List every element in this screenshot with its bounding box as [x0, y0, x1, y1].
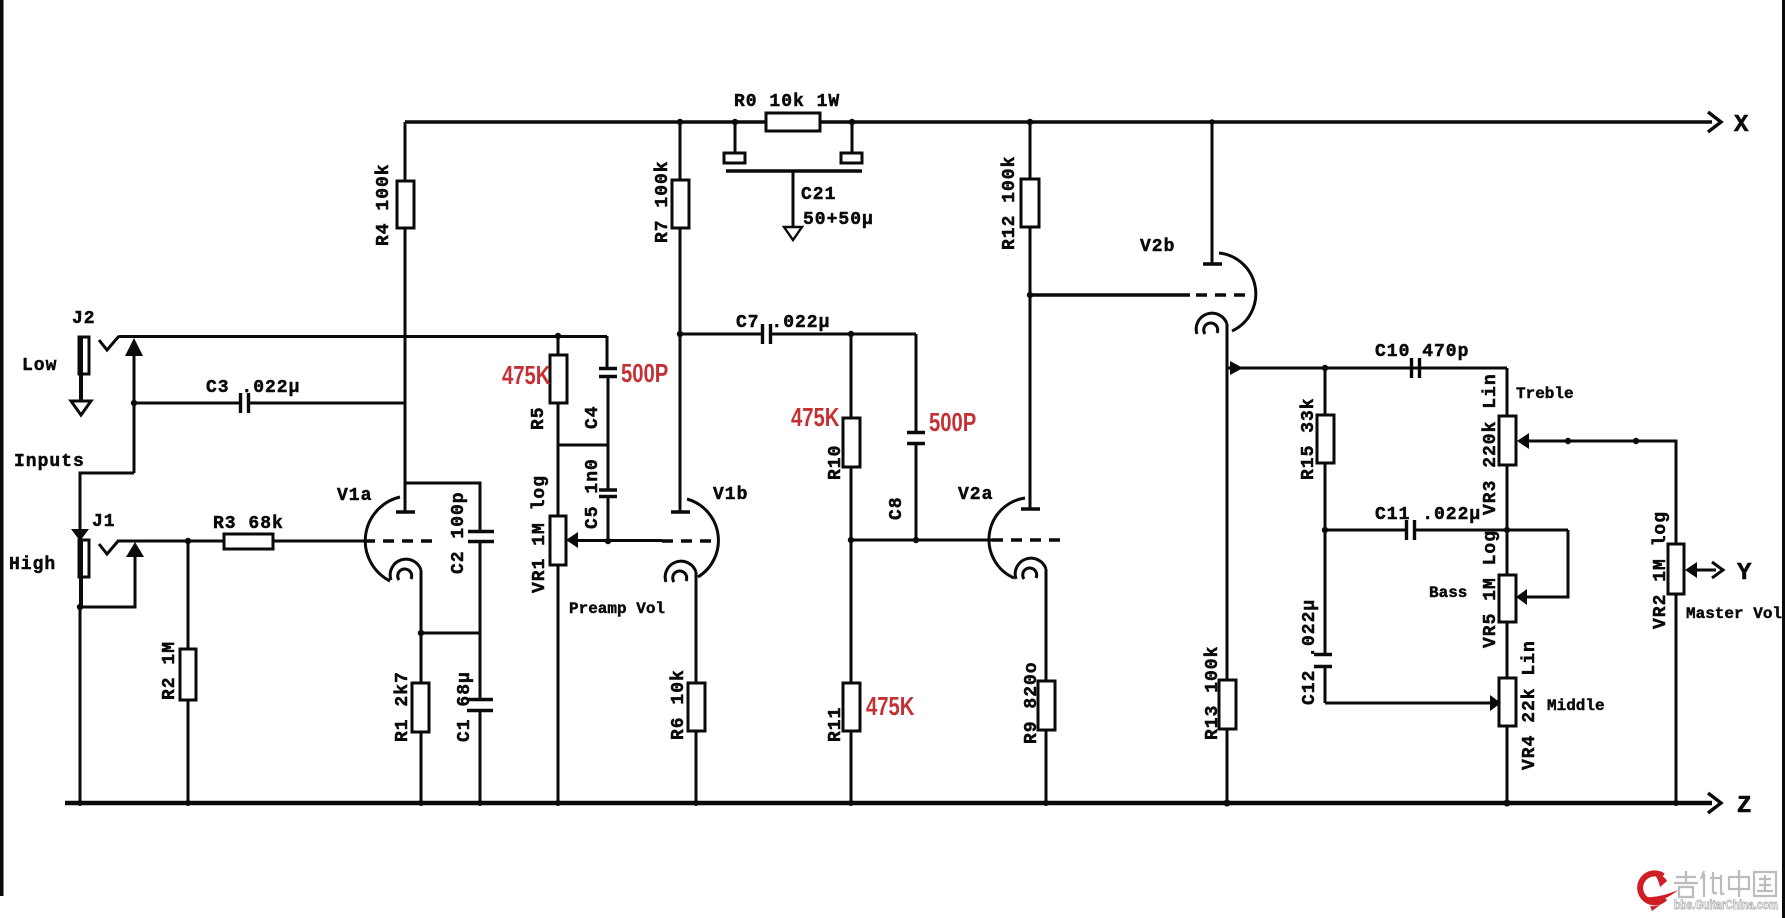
svg-text:X: X [1734, 112, 1749, 139]
svg-text:R11: R11 [826, 707, 846, 742]
tube V1b envelope [687, 499, 718, 577]
svg-text:C10 470p: C10 470p [1375, 342, 1469, 362]
svg-text:500P: 500P [929, 408, 976, 437]
V2a plate bar [1021, 507, 1040, 510]
svg-text:Bass: Bass [1429, 584, 1467, 602]
resistor R10 (475K) [843, 334, 860, 540]
ground rail junction dots [77, 800, 1679, 806]
svg-text:R5: R5 [529, 406, 549, 430]
capacitor C1 68u [467, 700, 493, 804]
VR5 wiper arrow [1516, 589, 1527, 605]
resistor R9 820o [1038, 681, 1055, 803]
resistor R2 1M [180, 541, 196, 803]
J1 feed arrow (down) [71, 529, 89, 541]
wire plate to C2 [405, 483, 480, 531]
wire inputs step [80, 473, 134, 530]
wire V1b cathode [695, 572, 698, 683]
capacitor C8 (500P) [907, 334, 925, 540]
VR4 wiper arrow [1490, 695, 1501, 711]
svg-text:R0 10k 1W: R0 10k 1W [734, 92, 840, 112]
node junction dot R10 bottom [848, 537, 854, 543]
wire: top HT rail X [405, 120, 1712, 123]
V2b plate bar [1203, 262, 1222, 265]
svg-text:VR2 1M log: VR2 1M log [1651, 511, 1671, 629]
wire V2b cathode [1226, 324, 1229, 680]
V1a cathode curl [390, 559, 421, 580]
node junction dot V2b grid tap [1027, 292, 1033, 298]
svg-text:VR5 1M Log: VR5 1M Log [1481, 530, 1501, 648]
wire V2b plate drop [1211, 122, 1214, 264]
VR1 wiper arrow [566, 532, 578, 548]
wire J1 tip to R3 [119, 540, 224, 543]
svg-text:High: High [9, 555, 56, 575]
tube V2a envelope [989, 498, 1025, 578]
svg-text:475K: 475K [791, 403, 840, 432]
jack J2 (Low input) [71, 337, 91, 415]
resistor R0 10k 1W [732, 113, 855, 131]
capacitor C3 [241, 393, 406, 413]
wire C7 left [680, 333, 762, 336]
node junction dot C11 left [1322, 527, 1328, 533]
wire VR3 wiper to VR2 [1528, 441, 1676, 544]
node junction dot C7 tap [677, 331, 683, 337]
potentiometer VR5 1M Log [1499, 575, 1516, 678]
svg-text:475K: 475K [502, 361, 551, 390]
left page border [0, 0, 4, 896]
wire C3 left [134, 402, 240, 405]
svg-text:500P: 500P [621, 359, 668, 388]
svg-text:VR4 22k Lin: VR4 22k Lin [1520, 640, 1540, 770]
svg-text:Middle: Middle [1547, 697, 1605, 715]
svg-text:V1b: V1b [713, 485, 748, 505]
svg-text:C11 .022µ: C11 .022µ [1375, 505, 1481, 525]
svg-text:Low: Low [22, 356, 57, 376]
svg-text:VR3 220k Lin: VR3 220k Lin [1481, 373, 1501, 515]
svg-text:C21: C21 [801, 185, 836, 205]
wire VR1 wiper to V1b grid [577, 539, 662, 542]
svg-text:R13 100k: R13 100k [1203, 646, 1223, 740]
wire V1a cathode [420, 570, 423, 683]
svg-text:C2 100p: C2 100p [449, 491, 469, 574]
capacitor C2 100p [468, 532, 494, 700]
svg-text:Treble: Treble [1516, 385, 1574, 403]
VR3 wiper arrow [1517, 433, 1529, 449]
svg-text:R4 100k: R4 100k [374, 163, 394, 246]
svg-text:C8: C8 [887, 496, 907, 520]
svg-text:V2b: V2b [1140, 237, 1175, 257]
svg-text:R1 2k7: R1 2k7 [393, 671, 413, 742]
svg-text:Y: Y [1737, 560, 1752, 587]
wire J2 arrow to C3 node [133, 354, 136, 473]
resistor R1 2k7 [412, 683, 429, 803]
capacitor C10 470p [1412, 358, 1420, 378]
V1a grid dashes [364, 539, 438, 542]
svg-text:R10: R10 [826, 445, 846, 480]
svg-text:bbs.GuitarChina.com: bbs.GuitarChina.com [1674, 898, 1778, 912]
node junction dot V2b plate [1209, 119, 1215, 125]
wire R5/C4 bottom tie [558, 444, 608, 447]
capacitor C7 .022u [763, 324, 917, 344]
node junction dot C5 bottom [605, 538, 611, 544]
wire V2b grid [1030, 293, 1190, 296]
J2 shorting arrow [125, 338, 143, 356]
potentiometer VR4 22k Lin [1499, 678, 1516, 807]
svg-text:50+50µ: 50+50µ [803, 210, 874, 230]
svg-text:C4: C4 [583, 405, 603, 429]
wire Y output [1696, 569, 1716, 572]
svg-text:C7 .022µ: C7 .022µ [736, 313, 830, 333]
V2b cathode curl [1196, 313, 1227, 334]
tube V2b envelope [1219, 253, 1256, 331]
resistor R13 100k [1219, 680, 1236, 807]
wire cathode to C1 [421, 632, 480, 635]
node Y arrowhead [1712, 562, 1723, 578]
svg-text:V2a: V2a [958, 485, 993, 505]
wire bass wiper loop [1527, 530, 1568, 597]
potentiometer VR3 220k Lin [1499, 416, 1516, 575]
node junction dot [418, 630, 424, 636]
capacitor C12 .022u [1314, 655, 1332, 704]
svg-text:Inputs: Inputs [14, 452, 85, 472]
V2a cathode curl [1015, 558, 1046, 579]
capacitor C5 1n0 [599, 445, 617, 541]
node junction dot R5 top [555, 333, 561, 339]
node junction dot [77, 604, 83, 610]
V2b grid dashes [1196, 293, 1248, 296]
svg-text:475K: 475K [866, 692, 915, 721]
node X arrowhead [1708, 112, 1721, 132]
node junction dot [1633, 438, 1639, 444]
svg-text:R15 33k: R15 33k [1299, 397, 1319, 480]
resistor R7 100k [672, 119, 689, 512]
J2 switch contact check [99, 336, 119, 350]
node junction dot R15 top [1322, 365, 1328, 371]
wire C11 run [1325, 529, 1406, 532]
V2a grid dashes [992, 538, 1062, 541]
node junction dot C11 tie [1504, 527, 1510, 533]
J1 shorting arrow [126, 542, 144, 557]
svg-text:J1: J1 [92, 512, 116, 532]
capacitor C4 (500P) [599, 336, 617, 445]
capacitor C11 .022u [1407, 520, 1569, 540]
J1 switch contact check [99, 540, 119, 554]
svg-text:Master Vol: Master Vol [1686, 605, 1782, 623]
resistor R15 33k [1317, 368, 1334, 654]
wire J2 tip rail [119, 335, 607, 338]
resistor R5 (475K) [550, 336, 567, 516]
resistor R4 100k [397, 122, 414, 512]
watermark chinese characters [1674, 870, 1776, 897]
wire to V2a grid [851, 539, 992, 542]
node junction dot [1565, 438, 1571, 444]
VR2 wiper arrow [1685, 562, 1697, 578]
wire: bottom ground rail Z [65, 801, 1712, 805]
svg-text:R12 100k: R12 100k [1000, 156, 1020, 250]
potentiometer VR2 1M log (Master Vol) [1668, 544, 1684, 803]
node junction dot R2 tap [185, 538, 191, 544]
svg-text:Preamp Vol: Preamp Vol [569, 600, 665, 618]
wire tone stack top right [1506, 368, 1509, 416]
wire J1 sleeve loop [80, 556, 135, 607]
svg-text:R2 1M: R2 1M [160, 641, 180, 700]
resistor R6 10k [688, 683, 705, 803]
svg-text:R6 10k: R6 10k [669, 669, 689, 740]
wire cathode follower out [1227, 367, 1507, 370]
svg-text:C5 1n0: C5 1n0 [583, 458, 603, 529]
V1a plate bar [396, 510, 415, 513]
watermark logo G swirl [1640, 872, 1678, 911]
V1b plate bar [671, 510, 690, 513]
wire middle wiper run [1325, 702, 1490, 705]
svg-text:V1a: V1a [337, 486, 372, 506]
svg-text:Z: Z [1737, 793, 1751, 820]
wire J1 ground drop [79, 607, 82, 803]
svg-text:C12 .022µ: C12 .022µ [1300, 599, 1320, 705]
svg-text:R7 100k: R7 100k [653, 160, 673, 243]
svg-text:R3 68k: R3 68k [213, 514, 284, 534]
node junction dot [131, 400, 137, 406]
V1b grid dashes [662, 539, 711, 542]
jack J1 (High input) [79, 540, 89, 607]
capacitor C21 50+50u [724, 122, 862, 240]
V1b cathode curl [665, 561, 696, 582]
node junction dot R10 top [848, 331, 854, 337]
svg-text:C1 68µ: C1 68µ [455, 671, 475, 742]
wire R3 to V1a grid [273, 540, 364, 543]
V2b output arrow [1230, 361, 1243, 375]
svg-text:C3 .022µ: C3 .022µ [206, 378, 300, 398]
resistor R12 100k [1021, 119, 1039, 509]
svg-text:J2: J2 [72, 309, 96, 329]
right page border [1782, 0, 1785, 918]
svg-text:R9 820o: R9 820o [1022, 661, 1042, 744]
svg-text:VR1 1M log: VR1 1M log [530, 475, 550, 593]
node Z arrowhead [1708, 793, 1721, 813]
resistor R11 (475K) [843, 540, 860, 803]
tube V1a envelope [365, 497, 400, 581]
node junction dot C8 bottom [913, 537, 919, 543]
resistor R3 68k [224, 534, 273, 549]
wire V2a cathode [1045, 569, 1048, 681]
potentiometer VR1 1M log [550, 516, 566, 803]
